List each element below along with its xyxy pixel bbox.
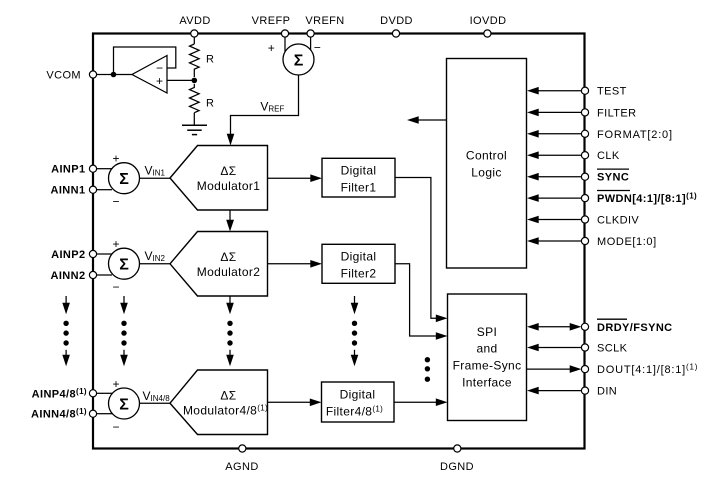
pin FORMAT[2:0] bbox=[527, 129, 673, 141]
pin AVDD bbox=[179, 15, 210, 37]
wire Filter2 to SPI bbox=[395, 264, 437, 336]
svg-text:Interface: Interface bbox=[462, 375, 512, 389]
svg-text:AINP2: AINP2 bbox=[51, 249, 85, 261]
svg-text:Σ: Σ bbox=[119, 396, 129, 413]
wire VCOM to op-amp bbox=[97, 74, 132, 76]
svg-text:FORMAT[2:0]: FORMAT[2:0] bbox=[597, 129, 673, 141]
svg-text:AINN2: AINN2 bbox=[50, 270, 85, 282]
svg-text:Σ: Σ bbox=[119, 171, 129, 188]
svg-text:+: + bbox=[156, 74, 163, 88]
svg-text:Modulator1: Modulator1 bbox=[197, 179, 261, 193]
summing node U3 (channel 1) bbox=[109, 152, 140, 209]
wire AINN4/8 to summer bbox=[97, 413, 112, 415]
svg-text:CLK: CLK bbox=[597, 150, 620, 162]
svg-text:Σ: Σ bbox=[294, 52, 304, 69]
pin AGND bbox=[225, 445, 258, 473]
pin AINN1 bbox=[50, 185, 96, 197]
svg-text:DOUT[4:1]/[8:1](1): DOUT[4:1]/[8:1](1) bbox=[597, 363, 698, 377]
wire op-amp feedback loop bbox=[114, 47, 176, 75]
svg-text:ΔΣ: ΔΣ bbox=[220, 388, 236, 402]
pin CLK bbox=[527, 150, 620, 162]
wire Filter1 to SPI bbox=[395, 178, 437, 319]
svg-text:DGND: DGND bbox=[440, 461, 474, 473]
SPI interface block bbox=[448, 294, 527, 421]
svg-text:MODE[1:0]: MODE[1:0] bbox=[597, 236, 657, 248]
pin AINN2 bbox=[50, 270, 96, 282]
svg-text:Logic: Logic bbox=[471, 165, 501, 179]
wire+arrow Modulator2 to Filter2 bbox=[268, 263, 312, 265]
ellipsis column (modulators continuation) bbox=[226, 296, 234, 366]
svg-text:VCOM: VCOM bbox=[46, 70, 81, 82]
pin DOUT[4:1]/[8:1] bbox=[527, 363, 698, 377]
arrow VREF into Modulator1 bbox=[227, 134, 235, 146]
wire VREFN stub bbox=[310, 37, 312, 50]
wire+arrow Modulator1 to Filter1 bbox=[268, 177, 312, 179]
wire Filter4/8 to SPI bbox=[394, 401, 437, 403]
wire summer2 to Modulator2 bbox=[140, 263, 171, 265]
pin FILTER bbox=[527, 107, 636, 119]
svg-text:−: − bbox=[156, 61, 163, 75]
wire AINP4/8 to summer bbox=[97, 392, 112, 394]
svg-text:DVDD: DVDD bbox=[380, 15, 413, 27]
ground symbol bbox=[182, 113, 207, 135]
svg-text:TEST: TEST bbox=[597, 86, 627, 98]
pin SYNC (active low) bbox=[527, 169, 629, 184]
digital filter F4/8 bbox=[322, 382, 395, 422]
op-amp U1 (VCOM buffer) bbox=[132, 56, 167, 94]
wire VREF to modulators bbox=[231, 75, 299, 135]
svg-text:Digital: Digital bbox=[340, 387, 376, 401]
pin AINP2 bbox=[51, 249, 97, 261]
wire summer4/8 to Modulator4/8 bbox=[140, 402, 171, 404]
svg-text:+: + bbox=[112, 377, 119, 391]
pin SCLK bbox=[527, 343, 628, 355]
wire op-amp + input to resistor divider bbox=[167, 79, 194, 81]
svg-text:DIN: DIN bbox=[597, 386, 617, 398]
wire AVDD stub bbox=[193, 37, 195, 44]
modulator M1 bbox=[170, 146, 268, 211]
pin VREFP bbox=[252, 15, 291, 37]
svg-text:IOVDD: IOVDD bbox=[470, 15, 507, 27]
svg-text:+: + bbox=[112, 152, 119, 166]
summing node U2 (VREF) bbox=[268, 41, 321, 76]
svg-text:VREFN: VREFN bbox=[305, 15, 344, 27]
pin DRDY/FSYNC (bidirectional) bbox=[527, 319, 673, 334]
control logic block bbox=[447, 59, 527, 269]
svg-text:Digital: Digital bbox=[341, 249, 377, 263]
resistor R (lower) bbox=[190, 84, 215, 113]
pin AINP1 bbox=[51, 164, 97, 176]
svg-text:SYNC: SYNC bbox=[597, 172, 629, 184]
svg-text:Filter2: Filter2 bbox=[341, 266, 377, 280]
wire+arrow Modulator1 to Modulator2 bbox=[229, 210, 231, 221]
summing node U4 (channel 2) bbox=[109, 237, 140, 294]
svg-text:ΔΣ: ΔΣ bbox=[220, 164, 236, 178]
pin DIN bbox=[527, 386, 617, 398]
svg-text:ΔΣ: ΔΣ bbox=[220, 250, 236, 264]
svg-text:−: − bbox=[112, 280, 119, 294]
wire VREFP stub bbox=[284, 37, 286, 52]
pin VCOM bbox=[46, 70, 96, 82]
wire AINN1 to summer bbox=[97, 189, 112, 191]
wire+arrow control logic output (left) bbox=[418, 119, 447, 121]
svg-text:R: R bbox=[206, 97, 214, 109]
svg-text:Control: Control bbox=[466, 149, 507, 163]
svg-text:AGND: AGND bbox=[225, 461, 258, 473]
pin MODE[1:0] bbox=[527, 236, 657, 248]
modulator M2 bbox=[170, 232, 268, 297]
svg-text:Filter1: Filter1 bbox=[341, 180, 377, 194]
wire AINP2 to summer bbox=[97, 253, 112, 255]
wire summer1 to Modulator1 bbox=[140, 177, 171, 179]
wire AINN2 to summer bbox=[97, 274, 112, 276]
pin IOVDD bbox=[470, 15, 507, 37]
svg-text:−: − bbox=[112, 420, 119, 434]
svg-text:VREFP: VREFP bbox=[252, 15, 291, 27]
digital filter F2 bbox=[322, 244, 395, 283]
svg-text:+: + bbox=[268, 41, 275, 55]
svg-text:CLKDIV: CLKDIV bbox=[597, 215, 639, 227]
pin TEST bbox=[527, 86, 627, 98]
svg-text:Digital: Digital bbox=[341, 163, 377, 177]
wire+arrow Modulator4/8 to Filter4/8 bbox=[268, 401, 311, 403]
summing node U5 (channel 4/8) bbox=[109, 377, 140, 434]
pin DGND bbox=[440, 445, 474, 473]
junction dot VCOM/feedback bbox=[111, 72, 117, 78]
svg-text:AINP1: AINP1 bbox=[51, 164, 85, 176]
svg-text:SPI: SPI bbox=[477, 325, 497, 339]
pin VREFN bbox=[305, 15, 344, 37]
svg-text:R: R bbox=[206, 54, 214, 66]
svg-text:Frame-Sync: Frame-Sync bbox=[453, 359, 522, 373]
ellipsis column (filters continuation) bbox=[351, 296, 359, 366]
pin PWDN[4:1]/[8:1] (active low) bbox=[527, 191, 697, 206]
chip outer boundary bbox=[93, 34, 585, 449]
svg-text:SCLK: SCLK bbox=[597, 343, 628, 355]
svg-text:FILTER: FILTER bbox=[597, 107, 636, 119]
ellipsis column (summers continuation) bbox=[120, 296, 128, 366]
modulator M4/8 bbox=[170, 370, 268, 435]
wire AINP1 to summer bbox=[97, 168, 112, 170]
pin AINP4/8 bbox=[32, 387, 97, 401]
svg-text:DRDY/FSYNC: DRDY/FSYNC bbox=[597, 322, 673, 334]
svg-text:AVDD: AVDD bbox=[179, 15, 210, 27]
pin CLKDIV bbox=[527, 215, 639, 227]
svg-text:+: + bbox=[112, 237, 119, 251]
svg-text:PWDN[4:1]/[8:1](1): PWDN[4:1]/[8:1](1) bbox=[597, 192, 697, 206]
pin AINN4/8 bbox=[31, 407, 97, 421]
ellipsis dots (filter outputs continuation) bbox=[425, 357, 430, 382]
junction dot divider midpoint bbox=[192, 78, 198, 84]
pin DVDD bbox=[380, 15, 413, 37]
svg-text:and: and bbox=[476, 342, 497, 356]
svg-text:−: − bbox=[112, 195, 119, 209]
svg-text:Modulator4/8(1): Modulator4/8(1) bbox=[183, 403, 268, 417]
svg-text:Σ: Σ bbox=[119, 257, 129, 274]
svg-text:AINN1: AINN1 bbox=[50, 185, 85, 197]
ellipsis column (input pins continuation) bbox=[62, 296, 70, 366]
resistor R (upper) bbox=[190, 44, 215, 77]
digital filter F1 bbox=[322, 158, 395, 197]
svg-text:−: − bbox=[314, 41, 321, 55]
svg-text:Modulator2: Modulator2 bbox=[197, 265, 261, 279]
